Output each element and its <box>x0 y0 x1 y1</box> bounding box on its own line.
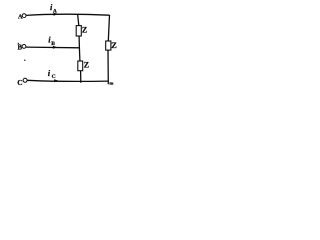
svg-text:B: B <box>51 41 55 47</box>
svg-text:Z: Z <box>111 41 117 50</box>
svg-text:m: m <box>110 81 114 86</box>
svg-text:Z: Z <box>84 61 89 70</box>
svg-text:A: A <box>18 14 23 21</box>
svg-text:A: A <box>53 9 57 15</box>
svg-text:B: B <box>18 45 23 52</box>
svg-text:C: C <box>17 78 22 87</box>
svg-text:C: C <box>52 74 56 80</box>
svg-text:Z: Z <box>82 25 87 34</box>
